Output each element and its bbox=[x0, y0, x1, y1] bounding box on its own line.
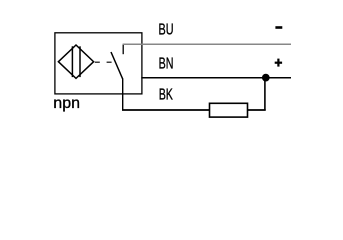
svg-text:BK: BK bbox=[159, 87, 174, 104]
svg-text:BN: BN bbox=[159, 55, 174, 72]
svg-text:npn: npn bbox=[53, 95, 80, 112]
svg-text:BU: BU bbox=[159, 22, 174, 39]
